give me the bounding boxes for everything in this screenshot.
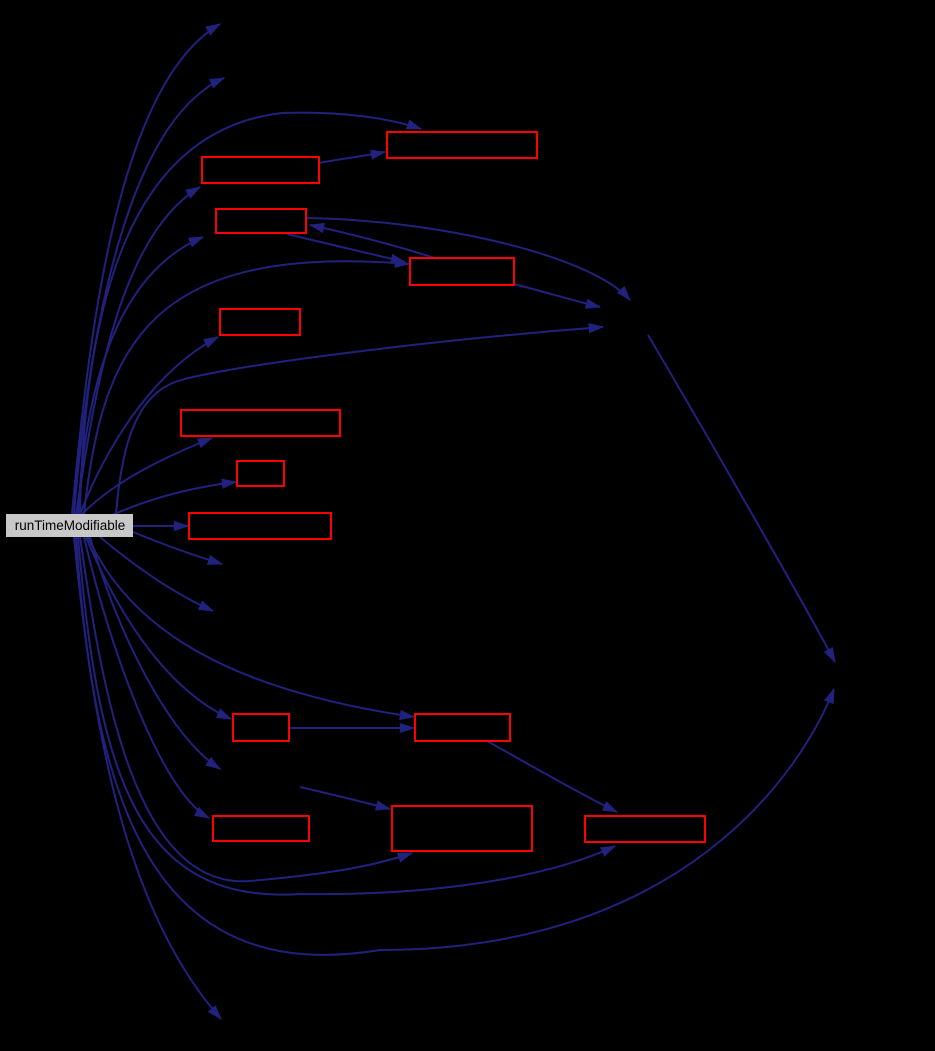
box B3 bbox=[216, 209, 306, 233]
box Bbig bbox=[392, 806, 532, 851]
box B7 bbox=[237, 461, 284, 486]
edge T5 to Bbig bbox=[300, 787, 390, 809]
edge runTimeModifiable to node T2 bbox=[74, 78, 224, 514]
edge Bmid to B11 bbox=[487, 741, 617, 812]
edge B4 to B3 bbox=[310, 225, 435, 258]
edge runTimeModifiable to box B3 bbox=[78, 237, 203, 514]
edge runTimeModifiable to box Bmid (long sweep) bbox=[88, 537, 414, 717]
edge B4 to M1 bbox=[514, 284, 600, 307]
edge runTimeModifiable to box B2 (top long curve) bbox=[80, 113, 421, 514]
edge B3 to M1 bbox=[306, 218, 630, 300]
edge M1 to FR bbox=[648, 335, 835, 662]
edge runTimeModifiable to node T6 (bottom arrow) bbox=[74, 537, 221, 1019]
edge B1 to B2 bbox=[319, 152, 385, 163]
edge runTimeModifiable to box B8 (horizontal) bbox=[133, 525, 188, 527]
box B2 bbox=[387, 132, 537, 158]
edge runTimeModifiable to box B10 bbox=[84, 537, 209, 818]
edge runTimeModifiable to node T4 bbox=[100, 537, 213, 611]
box B11 bbox=[585, 816, 705, 842]
box B6 bbox=[181, 410, 340, 436]
edge runTimeModifiable to node T5 bbox=[90, 537, 220, 769]
box B4 bbox=[410, 258, 514, 285]
edge runTimeModifiable to box B9 bbox=[86, 537, 231, 719]
edge runTimeModifiable to box B7 bbox=[110, 482, 236, 516]
edge runTimeModifiable to box B6 bbox=[82, 438, 212, 514]
svg-text:runTimeModifiable: runTimeModifiable bbox=[15, 518, 126, 533]
box B8 bbox=[189, 513, 331, 539]
edge runTimeModifiable to node T1 (top) bbox=[72, 24, 220, 514]
edge runTimeModifiable to box B1 bbox=[76, 187, 200, 514]
edge runTimeModifiable to node M1 (long flattening line) bbox=[116, 327, 603, 514]
edge B9 to Bmid bbox=[289, 727, 414, 729]
edge runTimeModifiable to box B11 bottom bbox=[78, 537, 615, 895]
edge runTimeModifiable to box B4 (under B3) bbox=[84, 261, 409, 514]
edge B3 to B4 bbox=[287, 234, 405, 262]
edge runTimeModifiable to node FR (widest sweep) bbox=[76, 537, 834, 955]
box B10 bbox=[213, 816, 309, 841]
node runTimeModifiable bbox=[6, 514, 133, 537]
edge runTimeModifiable to box Bbig bottom bbox=[80, 537, 412, 881]
box B9 bbox=[233, 714, 289, 741]
box B1 bbox=[202, 157, 319, 183]
box Bmid bbox=[415, 714, 510, 741]
edge runTimeModifiable to node T3 bbox=[133, 532, 222, 564]
edge runTimeModifiable to box B5 bbox=[80, 337, 218, 514]
box B5 bbox=[220, 309, 300, 335]
